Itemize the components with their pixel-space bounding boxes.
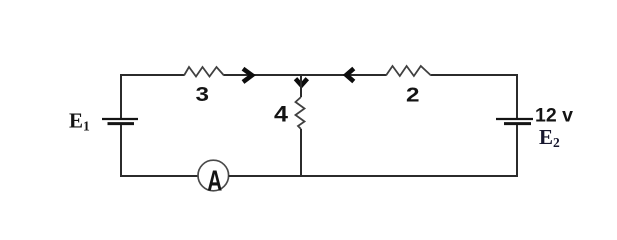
wire bottom-left segment xyxy=(120,175,199,177)
resistor R 4ohm vertical zigzag xyxy=(296,97,305,129)
wire right upper xyxy=(516,74,518,119)
middle branch wire lower xyxy=(300,129,302,176)
wire bottom-right segment xyxy=(229,175,518,177)
resistor R 3ohm zigzag xyxy=(184,67,224,77)
label 4 xyxy=(274,101,289,126)
resistor R 2ohm zigzag xyxy=(386,66,431,76)
label 2 xyxy=(406,84,420,106)
svg-text:12 v: 12 v xyxy=(535,105,573,127)
middle branch wire upper xyxy=(300,75,302,97)
battery E2 xyxy=(496,119,533,124)
current arrow down (into node) xyxy=(296,79,308,86)
svg-text:3: 3 xyxy=(196,84,210,106)
wire left lower xyxy=(120,125,122,177)
wire right lower xyxy=(516,125,518,177)
label E1 xyxy=(69,108,90,133)
svg-text:E2: E2 xyxy=(539,125,560,150)
wire left upper xyxy=(120,74,122,119)
svg-text:A: A xyxy=(207,166,222,198)
wire top-right segment xyxy=(431,74,518,76)
svg-text:4: 4 xyxy=(274,101,289,126)
svg-text:2: 2 xyxy=(406,84,420,106)
svg-text:E1: E1 xyxy=(69,108,90,133)
current arrow left (after R2) xyxy=(346,69,354,82)
label E2 xyxy=(539,125,560,150)
current arrow right (after R3) xyxy=(243,69,252,82)
ammeter A xyxy=(198,160,229,197)
wire top-middle segment xyxy=(224,74,386,76)
label 12 v xyxy=(535,105,573,127)
wire top-left segment xyxy=(120,74,184,76)
battery E1 xyxy=(102,119,138,124)
label 3 xyxy=(196,84,210,106)
